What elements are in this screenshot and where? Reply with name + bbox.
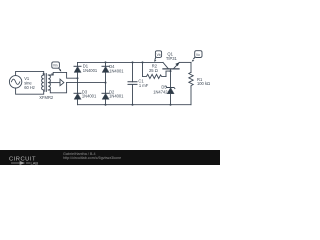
wire secondary bottom	[48, 83, 66, 93]
svg-text:Vb: Vb	[157, 53, 161, 57]
diode D2	[102, 92, 109, 94]
wire V1 bottom to primary	[16, 88, 44, 94]
probe Vo box	[195, 51, 202, 58]
bridge right leg lower	[105, 83, 107, 94]
phase dot primary	[43, 73, 44, 74]
R2 jog to base node	[166, 71, 171, 76]
transformer XFMR2 primary coil	[42, 75, 44, 90]
bottom rail	[78, 104, 192, 106]
svg-text:1N4001: 1N4001	[83, 68, 98, 73]
zener diode D5	[166, 86, 175, 88]
svg-text:25 Ω: 25 Ω	[149, 68, 158, 73]
output corner down to R1	[190, 62, 192, 72]
probe Vo pointer	[194, 58, 195, 59]
bridge right leg upper	[105, 62, 107, 66]
transistor Q1 base bar	[163, 68, 179, 70]
text labels	[24, 51, 210, 100]
emitter wire to output	[179, 61, 191, 63]
footer info text	[63, 152, 121, 160]
svg-text:TIP31: TIP31	[166, 56, 178, 61]
svg-text:Vin: Vin	[53, 64, 58, 68]
resistor R2	[143, 74, 167, 78]
wire secondary top to bridge left leg	[48, 72, 77, 78]
transformer XFMR2 secondary coil	[48, 75, 50, 90]
wire V1 top to primary	[16, 71, 44, 75]
transformer core	[45, 74, 47, 92]
CircuitLab logo	[9, 157, 38, 166]
bridge left leg upper	[77, 62, 79, 66]
svg-text:1N4001: 1N4001	[82, 94, 97, 99]
center tap wire	[48, 82, 60, 84]
diode D3	[74, 92, 81, 94]
emitter arrowhead	[175, 62, 179, 66]
transistor Q1 emitter	[174, 63, 180, 69]
wire tap corner to bridge right leg	[67, 82, 106, 84]
footer bar	[0, 150, 220, 165]
diode D4	[102, 65, 109, 67]
ground triangle marker	[60, 79, 64, 86]
probe Vin pointer	[59, 68, 60, 69]
probe Vb pointer	[154, 57, 157, 59]
voltage source V1	[9, 76, 21, 88]
sine wave inside V1	[11, 79, 19, 84]
svg-text:LAB: LAB	[31, 161, 39, 166]
svg-text:1N4001: 1N4001	[109, 94, 124, 99]
bridge left leg mid	[77, 78, 79, 93]
svg-text:60 Hz: 60 Hz	[24, 85, 35, 90]
svg-text:1 mF: 1 mF	[139, 83, 149, 88]
svg-text:100 kΩ: 100 kΩ	[197, 81, 210, 86]
transistor Q1 collector	[163, 62, 168, 68]
svg-text:1N4001: 1N4001	[109, 68, 124, 73]
probe Vin box	[52, 62, 60, 68]
phase dot secondary	[51, 73, 52, 74]
resistor R1	[189, 72, 193, 87]
bridge top rail	[78, 61, 164, 63]
diode D1	[74, 65, 81, 67]
junction dots	[105, 61, 107, 63]
probe Vb box	[155, 51, 161, 58]
svg-text:Vo: Vo	[196, 53, 200, 57]
svg-text:http://circuitlab.com/c/5gvbwz: http://circuitlab.com/c/5gvbwz3kone	[63, 156, 121, 160]
svg-text:1N4742A: 1N4742A	[153, 90, 170, 95]
svg-text:XFMR2: XFMR2	[39, 95, 54, 100]
capacitor C1	[132, 62, 134, 81]
base lead down	[170, 69, 172, 88]
resistor R2 drop wire	[142, 62, 144, 76]
